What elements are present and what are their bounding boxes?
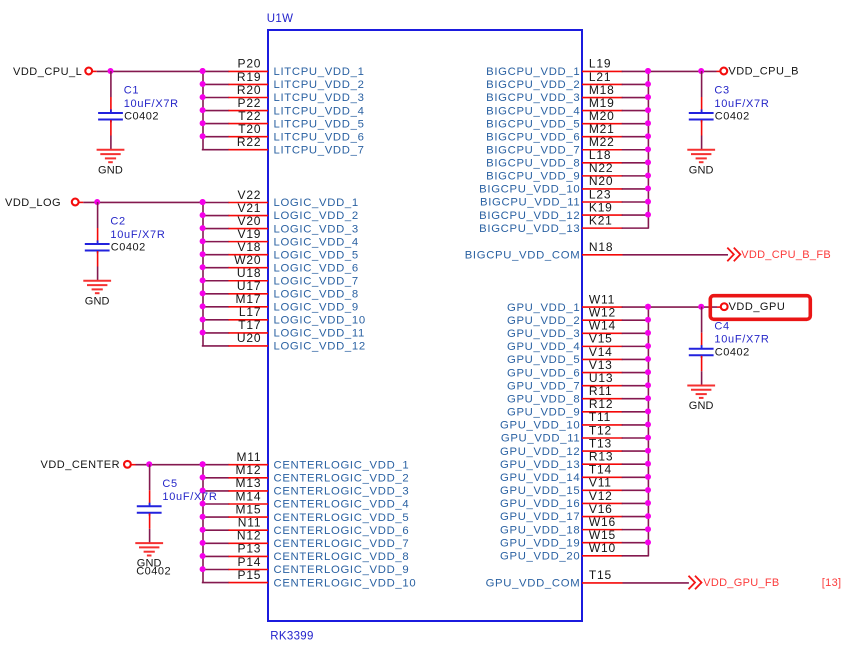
ground — [687, 386, 715, 413]
svg-text:R19: R19 — [237, 70, 261, 84]
svg-text:CENTERLOGIC_VDD_3: CENTERLOGIC_VDD_3 — [274, 486, 410, 498]
svg-text:U13: U13 — [589, 371, 613, 385]
svg-text:GPU_VDD_11: GPU_VDD_11 — [501, 433, 580, 445]
pin K21 BIGCPU_VDD_13 — [479, 213, 648, 234]
svg-text:V22: V22 — [238, 188, 262, 202]
svg-text:C1: C1 — [124, 85, 139, 97]
wire bus LITCPU_VDD left — [202, 71, 204, 149]
svg-text:T11: T11 — [589, 410, 611, 424]
node VDD_LOG cap junction — [94, 199, 100, 205]
svg-text:GPU_VDD_20: GPU_VDD_20 — [500, 551, 580, 563]
svg-text:LITCPU_VDD_3: LITCPU_VDD_3 — [274, 92, 365, 104]
svg-text:LITCPU_VDD_6: LITCPU_VDD_6 — [274, 131, 365, 143]
svg-text:LOGIC_VDD_1: LOGIC_VDD_1 — [274, 197, 359, 209]
svg-text:BIGCPU_VDD_12: BIGCPU_VDD_12 — [479, 210, 580, 222]
svg-text:GPU_VDD_15: GPU_VDD_15 — [500, 485, 580, 497]
capacitor C5 — [137, 490, 162, 529]
pin M18 BIGCPU_VDD_3 — [486, 83, 651, 104]
svg-text:10uF/X7R: 10uF/X7R — [124, 98, 179, 110]
svg-text:W20: W20 — [234, 253, 261, 267]
svg-text:W14: W14 — [589, 319, 616, 333]
pin W11 GPU_VDD_1 — [507, 292, 651, 313]
svg-text:10uF/X7R: 10uF/X7R — [714, 98, 769, 110]
wire cap branch C5 — [149, 464, 151, 490]
pin L23 BIGCPU_VDD_11 — [480, 187, 651, 208]
svg-text:P13: P13 — [238, 542, 262, 556]
pin W15 GPU_VDD_19 — [500, 528, 651, 549]
svg-text:V16: V16 — [589, 502, 613, 516]
svg-text:BIGCPU_VDD_5: BIGCPU_VDD_5 — [486, 118, 580, 130]
pin M13 CENTERLOGIC_VDD_3 — [200, 476, 410, 497]
svg-text:T22: T22 — [238, 109, 261, 123]
pin M14 CENTERLOGIC_VDD_4 — [200, 489, 410, 510]
svg-text:M17: M17 — [236, 292, 262, 306]
wire N18 to VDD_CPU_B_FB — [623, 254, 729, 256]
pin T15 GPU_VDD_COM — [486, 568, 623, 589]
pin N18 BIGCPU_VDD_COM — [465, 240, 623, 261]
svg-text:GPU_VDD_9: GPU_VDD_9 — [507, 407, 580, 419]
svg-text:V12: V12 — [589, 489, 613, 503]
capacitor C3 — [689, 97, 714, 136]
svg-text:U1W: U1W — [267, 13, 293, 25]
svg-text:GND: GND — [98, 164, 123, 176]
pin P14 CENTERLOGIC_VDD_9 — [200, 555, 410, 576]
pin V18 LOGIC_VDD_5 — [200, 240, 359, 261]
svg-text:L21: L21 — [589, 70, 611, 84]
svg-text:VDD_CPU_B: VDD_CPU_B — [728, 66, 799, 78]
svg-text:LITCPU_VDD_2: LITCPU_VDD_2 — [274, 79, 365, 91]
svg-text:GPU_VDD_18: GPU_VDD_18 — [500, 524, 580, 536]
wire VDD_CENTER feed — [131, 461, 206, 467]
svg-text:BIGCPU_VDD_9: BIGCPU_VDD_9 — [486, 171, 580, 183]
wire VDD_CPU_B feed — [645, 68, 721, 74]
wire cap branch C3 — [701, 71, 703, 97]
node VDD_CENTER cap junction — [146, 461, 152, 467]
svg-text:CENTERLOGIC_VDD_7: CENTERLOGIC_VDD_7 — [274, 538, 410, 550]
pin U13 GPU_VDD_7 — [507, 371, 651, 392]
pin V22 LOGIC_VDD_1 — [200, 188, 359, 209]
pin V14 GPU_VDD_5 — [507, 345, 651, 366]
ground — [687, 150, 715, 177]
svg-text:GND: GND — [85, 295, 110, 307]
node VDD_CPU_L cap junction — [108, 68, 114, 74]
svg-text:V18: V18 — [238, 240, 262, 254]
wire VDD_LOG feed — [78, 199, 205, 205]
svg-text:GPU_VDD_COM: GPU_VDD_COM — [486, 578, 581, 590]
pin U18 LOGIC_VDD_7 — [200, 266, 359, 287]
svg-text:GPU_VDD_10: GPU_VDD_10 — [500, 420, 580, 432]
svg-text:K21: K21 — [589, 213, 613, 227]
svg-text:V13: V13 — [589, 358, 613, 372]
svg-text:LOGIC_VDD_11: LOGIC_VDD_11 — [274, 328, 365, 340]
svg-text:M21: M21 — [589, 122, 615, 136]
node VDD_CPU_B cap junction — [698, 68, 704, 74]
svg-text:CENTERLOGIC_VDD_8: CENTERLOGIC_VDD_8 — [274, 551, 410, 563]
pin P20 LITCPU_VDD_1 — [200, 57, 365, 78]
highlight box around VDD_GPU — [710, 296, 810, 320]
svg-text:CENTERLOGIC_VDD_2: CENTERLOGIC_VDD_2 — [274, 473, 410, 485]
svg-text:BIGCPU_VDD_COM: BIGCPU_VDD_COM — [465, 250, 581, 262]
svg-text:V20: V20 — [238, 214, 262, 228]
svg-text:VDD_CPU_L: VDD_CPU_L — [13, 66, 82, 78]
svg-text:N18: N18 — [589, 240, 613, 254]
svg-text:M22: M22 — [589, 135, 615, 149]
svg-text:W10: W10 — [589, 541, 616, 555]
svg-text:C0402: C0402 — [136, 566, 171, 578]
svg-text:M20: M20 — [589, 109, 615, 123]
svg-text:M12: M12 — [236, 463, 262, 477]
pin R11 GPU_VDD_8 — [507, 384, 651, 405]
svg-text:GPU_VDD_7: GPU_VDD_7 — [507, 380, 580, 392]
wire VDD_GPU feed — [645, 304, 721, 310]
pin P15 CENTERLOGIC_VDD_10 — [203, 568, 417, 589]
pin V20 LOGIC_VDD_3 — [200, 214, 359, 235]
wire C1 to ground — [110, 136, 112, 150]
pin M11 CENTERLOGIC_VDD_1 — [200, 450, 410, 471]
svg-text:10uF/X7R: 10uF/X7R — [162, 491, 217, 503]
svg-text:GND: GND — [689, 400, 714, 412]
wire bus BIGCPU_VDD right — [647, 71, 649, 228]
svg-text:VDD_CPU_B_FB: VDD_CPU_B_FB — [741, 249, 831, 261]
node VDD_CPU_B_FB off-page connector — [727, 248, 831, 262]
svg-text:V21: V21 — [238, 201, 262, 215]
svg-text:R22: R22 — [237, 135, 261, 149]
svg-text:LITCPU_VDD_1: LITCPU_VDD_1 — [274, 66, 365, 78]
IC U1W RK3399 — [268, 30, 582, 621]
pin R19 LITCPU_VDD_2 — [200, 70, 365, 91]
svg-text:BIGCPU_VDD_3: BIGCPU_VDD_3 — [486, 92, 580, 104]
pin W10 GPU_VDD_20 — [500, 541, 648, 562]
pin V12 GPU_VDD_16 — [500, 489, 651, 510]
svg-text:N12: N12 — [237, 529, 261, 543]
svg-text:BIGCPU_VDD_10: BIGCPU_VDD_10 — [479, 184, 580, 196]
svg-text:GPU_VDD_1: GPU_VDD_1 — [507, 302, 580, 314]
svg-text:BIGCPU_VDD_11: BIGCPU_VDD_11 — [480, 197, 580, 209]
svg-text:LOGIC_VDD_3: LOGIC_VDD_3 — [274, 223, 359, 235]
capacitor C2 — [85, 228, 110, 267]
pin M12 CENTERLOGIC_VDD_2 — [200, 463, 410, 484]
svg-text:C0402: C0402 — [111, 242, 146, 254]
svg-text:P15: P15 — [238, 568, 262, 582]
svg-text:L17: L17 — [239, 305, 261, 319]
pin U17 LOGIC_VDD_8 — [200, 279, 359, 300]
pin V16 GPU_VDD_17 — [500, 502, 651, 523]
wire T15 to VDD_GPU_FB — [623, 582, 689, 584]
svg-text:LOGIC_VDD_5: LOGIC_VDD_5 — [274, 249, 359, 261]
svg-text:L18: L18 — [589, 148, 611, 162]
svg-text:CENTERLOGIC_VDD_9: CENTERLOGIC_VDD_9 — [274, 564, 410, 576]
wire C5 to ground — [149, 529, 151, 543]
svg-text:LOGIC_VDD_9: LOGIC_VDD_9 — [274, 302, 359, 314]
svg-text:P20: P20 — [238, 57, 262, 71]
wire cap branch C2 — [97, 202, 99, 228]
svg-text:GPU_VDD_6: GPU_VDD_6 — [507, 367, 580, 379]
node VDD_GPU cap junction — [698, 304, 704, 310]
pin T17 LOGIC_VDD_11 — [200, 318, 365, 339]
pin P13 CENTERLOGIC_VDD_8 — [200, 542, 410, 563]
svg-text:LOGIC_VDD_12: LOGIC_VDD_12 — [274, 341, 366, 353]
ground — [135, 543, 163, 570]
pin T13 GPU_VDD_12 — [500, 436, 651, 457]
power port VDD_GPU — [721, 301, 785, 313]
wire C4 to ground — [701, 371, 703, 385]
svg-text:LOGIC_VDD_10: LOGIC_VDD_10 — [274, 315, 366, 327]
svg-text:GPU_VDD_13: GPU_VDD_13 — [500, 459, 580, 471]
svg-text:M11: M11 — [236, 450, 261, 464]
svg-text:VDD_CENTER: VDD_CENTER — [41, 459, 121, 471]
svg-text:T13: T13 — [589, 436, 612, 450]
svg-text:V15: V15 — [589, 332, 613, 346]
pin T11 GPU_VDD_10 — [500, 410, 651, 431]
svg-text:[13]: [13] — [822, 577, 842, 589]
svg-text:BIGCPU_VDD_13: BIGCPU_VDD_13 — [479, 223, 580, 235]
pin N11 CENTERLOGIC_VDD_6 — [200, 516, 410, 537]
svg-text:W16: W16 — [589, 515, 616, 529]
ground — [83, 281, 111, 308]
svg-text:U18: U18 — [237, 266, 261, 280]
svg-text:10uF/X7R: 10uF/X7R — [714, 334, 769, 346]
svg-text:U20: U20 — [237, 331, 261, 345]
power port VDD_LOG — [5, 197, 79, 209]
svg-text:VDD_LOG: VDD_LOG — [5, 197, 61, 209]
svg-text:BIGCPU_VDD_2: BIGCPU_VDD_2 — [486, 79, 580, 91]
pin V21 LOGIC_VDD_2 — [200, 201, 359, 222]
svg-text:GPU_VDD_14: GPU_VDD_14 — [500, 472, 580, 484]
pin M22 BIGCPU_VDD_7 — [486, 135, 651, 156]
svg-text:L23: L23 — [589, 187, 611, 201]
pin N20 BIGCPU_VDD_10 — [479, 174, 651, 195]
label C3 value — [714, 85, 769, 123]
svg-text:C3: C3 — [714, 85, 729, 97]
label C5 value — [136, 478, 217, 578]
svg-text:C4: C4 — [714, 320, 729, 332]
svg-text:BIGCPU_VDD_8: BIGCPU_VDD_8 — [486, 158, 580, 170]
svg-text:10uF/X7R: 10uF/X7R — [110, 229, 165, 241]
pin M21 BIGCPU_VDD_6 — [486, 122, 651, 143]
svg-text:GPU_VDD_19: GPU_VDD_19 — [500, 537, 580, 549]
svg-text:GPU_VDD_2: GPU_VDD_2 — [507, 315, 580, 327]
svg-text:BIGCPU_VDD_6: BIGCPU_VDD_6 — [486, 131, 580, 143]
pin L21 BIGCPU_VDD_2 — [486, 70, 651, 91]
svg-text:GPU_VDD_17: GPU_VDD_17 — [500, 511, 580, 523]
svg-text:RK3399: RK3399 — [270, 630, 313, 642]
pin U20 LOGIC_VDD_12 — [203, 331, 366, 352]
pin R13 GPU_VDD_13 — [500, 449, 651, 470]
label C1 value — [124, 85, 179, 123]
svg-text:U17: U17 — [237, 279, 261, 293]
svg-text:W12: W12 — [589, 305, 616, 319]
svg-text:C5: C5 — [162, 478, 177, 490]
svg-text:LOGIC_VDD_4: LOGIC_VDD_4 — [274, 236, 359, 248]
svg-text:T15: T15 — [589, 568, 612, 582]
wire bus LOGIC_VDD left — [202, 202, 204, 345]
svg-text:T17: T17 — [238, 318, 261, 332]
svg-text:M19: M19 — [589, 96, 615, 110]
capacitor C4 — [689, 333, 714, 372]
pin M20 BIGCPU_VDD_5 — [486, 109, 651, 130]
wire cap branch C1 — [110, 71, 112, 97]
svg-text:T12: T12 — [589, 423, 612, 437]
label C2 value — [110, 216, 165, 254]
pin T12 GPU_VDD_11 — [501, 423, 651, 444]
svg-text:BIGCPU_VDD_4: BIGCPU_VDD_4 — [486, 105, 580, 117]
svg-text:C0402: C0402 — [124, 111, 159, 123]
svg-text:M13: M13 — [236, 476, 262, 490]
svg-text:LOGIC_VDD_8: LOGIC_VDD_8 — [274, 288, 359, 300]
ground — [97, 150, 125, 177]
svg-text:GPU_VDD_8: GPU_VDD_8 — [507, 393, 580, 405]
svg-text:C2: C2 — [110, 216, 125, 228]
svg-text:LOGIC_VDD_2: LOGIC_VDD_2 — [274, 210, 359, 222]
pin L17 LOGIC_VDD_10 — [200, 305, 366, 326]
svg-text:LOGIC_VDD_6: LOGIC_VDD_6 — [274, 262, 359, 274]
svg-text:N22: N22 — [589, 161, 613, 175]
pin R22 LITCPU_VDD_7 — [203, 135, 365, 156]
svg-text:M15: M15 — [236, 502, 262, 516]
power port VDD_CPU_B — [720, 66, 799, 78]
svg-text:GPU_VDD_3: GPU_VDD_3 — [507, 328, 580, 340]
wire C2 to ground — [97, 267, 99, 281]
pin V15 GPU_VDD_4 — [507, 332, 651, 353]
svg-text:VDD_GPU_FB: VDD_GPU_FB — [703, 577, 779, 589]
svg-text:P14: P14 — [238, 555, 262, 569]
svg-text:L19: L19 — [589, 57, 611, 71]
svg-text:K19: K19 — [589, 200, 613, 214]
pin N22 BIGCPU_VDD_9 — [486, 161, 651, 182]
svg-text:CENTERLOGIC_VDD_6: CENTERLOGIC_VDD_6 — [274, 525, 410, 537]
svg-text:VDD_GPU: VDD_GPU — [729, 301, 786, 313]
wire VDD_CPU_L feed — [92, 68, 206, 74]
svg-text:LOGIC_VDD_7: LOGIC_VDD_7 — [274, 275, 359, 287]
svg-text:N20: N20 — [589, 174, 613, 188]
svg-text:R13: R13 — [589, 449, 613, 463]
svg-text:BIGCPU_VDD_7: BIGCPU_VDD_7 — [486, 144, 580, 156]
label C4 value — [714, 320, 769, 358]
pin P22 LITCPU_VDD_4 — [200, 96, 365, 117]
svg-text:T14: T14 — [589, 463, 612, 477]
svg-text:GPU_VDD_5: GPU_VDD_5 — [507, 354, 580, 366]
node VDD_GPU_FB off-page connector — [689, 576, 780, 590]
pin L18 BIGCPU_VDD_8 — [486, 148, 651, 169]
svg-text:CENTERLOGIC_VDD_1: CENTERLOGIC_VDD_1 — [274, 459, 410, 471]
pin V13 GPU_VDD_6 — [507, 358, 651, 379]
svg-text:T20: T20 — [238, 122, 261, 136]
pin T22 LITCPU_VDD_5 — [200, 109, 365, 130]
svg-text:R12: R12 — [589, 397, 613, 411]
svg-text:W11: W11 — [589, 292, 615, 306]
svg-text:LITCPU_VDD_5: LITCPU_VDD_5 — [274, 118, 365, 130]
wire bus CENTERLOGIC_VDD left — [202, 464, 204, 582]
svg-text:CENTERLOGIC_VDD_10: CENTERLOGIC_VDD_10 — [274, 577, 417, 589]
svg-text:LITCPU_VDD_7: LITCPU_VDD_7 — [274, 144, 365, 156]
pin T20 LITCPU_VDD_6 — [200, 122, 365, 143]
svg-text:V19: V19 — [238, 227, 262, 241]
svg-text:GND: GND — [689, 164, 714, 176]
pin R12 GPU_VDD_9 — [507, 397, 651, 418]
svg-text:V11: V11 — [589, 476, 612, 490]
pin M15 CENTERLOGIC_VDD_5 — [200, 502, 410, 523]
svg-text:CENTERLOGIC_VDD_4: CENTERLOGIC_VDD_4 — [274, 499, 410, 511]
pin M17 LOGIC_VDD_9 — [200, 292, 359, 313]
svg-text:GPU_VDD_12: GPU_VDD_12 — [500, 446, 580, 458]
wire C3 to ground — [701, 136, 703, 150]
svg-text:V14: V14 — [589, 345, 613, 359]
pin V19 LOGIC_VDD_4 — [200, 227, 359, 248]
wire bus GPU_VDD right — [647, 307, 649, 556]
pin K19 BIGCPU_VDD_12 — [479, 200, 651, 221]
svg-text:P22: P22 — [238, 96, 262, 110]
svg-text:BIGCPU_VDD_1: BIGCPU_VDD_1 — [486, 66, 580, 78]
power port VDD_CENTER — [41, 459, 131, 471]
pin W20 LOGIC_VDD_6 — [200, 253, 359, 274]
svg-text:CENTERLOGIC_VDD_5: CENTERLOGIC_VDD_5 — [274, 512, 410, 524]
svg-text:R20: R20 — [237, 83, 261, 97]
pin T14 GPU_VDD_14 — [500, 463, 651, 484]
svg-text:GPU_VDD_16: GPU_VDD_16 — [500, 498, 580, 510]
capacitor C1 — [98, 97, 123, 136]
pin L19 BIGCPU_VDD_1 — [486, 57, 651, 78]
wire cap branch C4 — [701, 307, 703, 333]
pin N12 CENTERLOGIC_VDD_7 — [200, 529, 410, 550]
pin V11 GPU_VDD_15 — [500, 476, 651, 497]
svg-text:W15: W15 — [589, 528, 616, 542]
svg-text:N11: N11 — [238, 516, 262, 530]
pin M19 BIGCPU_VDD_4 — [486, 96, 651, 117]
power port VDD_CPU_L — [13, 66, 92, 78]
svg-text:GPU_VDD_4: GPU_VDD_4 — [507, 341, 580, 353]
pin W14 GPU_VDD_3 — [507, 319, 651, 340]
pin R20 LITCPU_VDD_3 — [200, 83, 365, 104]
pin W12 GPU_VDD_2 — [507, 305, 651, 326]
svg-text:LITCPU_VDD_4: LITCPU_VDD_4 — [274, 105, 365, 117]
pin W16 GPU_VDD_18 — [500, 515, 651, 536]
svg-text:M14: M14 — [236, 489, 262, 503]
svg-text:C0402: C0402 — [715, 346, 750, 358]
svg-text:C0402: C0402 — [715, 111, 750, 123]
svg-text:R11: R11 — [589, 384, 613, 398]
svg-text:M18: M18 — [589, 83, 615, 97]
